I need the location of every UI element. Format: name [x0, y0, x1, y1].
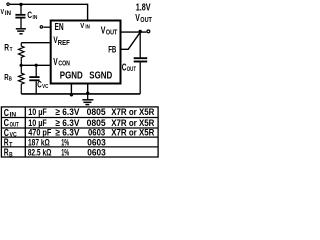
table: component values — [1, 107, 158, 157]
svg-text:SGND: SGND — [89, 71, 112, 82]
svg-text:OUT: OUT — [106, 28, 118, 37]
terminal VIN (open circle) — [7, 3, 9, 5]
table row CVC — [4, 127, 155, 139]
pin EN open circle — [40, 26, 42, 28]
svg-text:C: C — [122, 62, 127, 73]
svg-text:0603: 0603 — [87, 148, 106, 159]
pin label VOUT (inside) — [101, 26, 118, 37]
svg-text:B: B — [9, 77, 12, 83]
terminal VOUT (open circle) — [147, 30, 150, 33]
svg-text:OUT: OUT — [10, 122, 19, 129]
svg-text:R: R — [4, 43, 9, 53]
svg-text:PGND: PGND — [60, 71, 83, 82]
pin SGND stub — [87, 85, 89, 94]
svg-text:82.5 kΩ: 82.5 kΩ — [28, 148, 52, 159]
pin label VREF — [53, 34, 70, 47]
ground (CIN) — [16, 29, 26, 34]
ground (bus) — [82, 95, 93, 105]
node: input junction dot — [19, 3, 22, 6]
label RT — [4, 43, 13, 53]
svg-text:X7R or X5R: X7R or X5R — [111, 107, 154, 118]
svg-text:OUT: OUT — [140, 15, 152, 24]
wire: ground bus — [21, 93, 140, 95]
node A (feedback divider node) — [20, 64, 23, 67]
svg-text:V: V — [53, 57, 58, 68]
label RB — [4, 72, 12, 83]
pin label VIN (top) — [80, 21, 90, 31]
capacitor CIN — [15, 4, 25, 28]
svg-text:1%: 1% — [61, 148, 69, 159]
svg-text:V: V — [80, 21, 84, 30]
capacitor CVC — [29, 65, 39, 94]
resistor RB — [18, 65, 24, 94]
label COUT — [122, 62, 136, 73]
pin label VCON — [53, 57, 70, 68]
wire: VIN top rail to IC VIN pin — [10, 4, 88, 19]
node: PGND junction dot — [70, 93, 73, 96]
svg-text:≥ 6.3V: ≥ 6.3V — [55, 107, 80, 118]
svg-text:T: T — [10, 47, 13, 53]
svg-text:OUT: OUT — [127, 66, 136, 73]
svg-text:T: T — [9, 141, 13, 148]
table row rules — [1, 117, 158, 119]
svg-text:X7R or X5R: X7R or X5R — [111, 127, 154, 138]
table row RT — [4, 137, 106, 148]
svg-text:IN: IN — [85, 25, 90, 31]
table row CIN — [4, 107, 155, 119]
svg-text:VC: VC — [42, 84, 48, 90]
label CIN — [27, 10, 37, 21]
svg-text:B: B — [9, 151, 13, 158]
table outer border — [1, 107, 158, 157]
label VIN (input) — [1, 7, 12, 17]
svg-text:IN: IN — [10, 112, 17, 119]
svg-text:VC: VC — [10, 132, 18, 139]
node B (CVC tap) — [35, 64, 38, 67]
wire: VREF to RT top — [21, 42, 50, 44]
node: output junction dot — [139, 30, 142, 33]
svg-text:10 µF: 10 µF — [28, 107, 47, 118]
table column divider — [24, 107, 26, 157]
svg-text:1.8V: 1.8V — [136, 3, 151, 14]
label VOUT (output) — [135, 13, 152, 24]
svg-text:EN: EN — [55, 22, 64, 33]
wire EN — [43, 26, 50, 28]
label CVC — [37, 79, 48, 89]
table row COUT — [4, 118, 155, 129]
node: SGND junction dot — [86, 92, 89, 95]
wire: node A to VCON pin — [21, 64, 50, 66]
svg-text:0805: 0805 — [87, 107, 107, 118]
capacitor COUT — [134, 32, 148, 94]
pin PGND stub — [70, 85, 72, 94]
svg-text:CON: CON — [58, 61, 70, 68]
resistor RT — [18, 43, 24, 66]
svg-text:REF: REF — [58, 38, 70, 47]
wire: VOUT pin to output terminal — [122, 31, 147, 33]
svg-text:FB: FB — [108, 45, 116, 55]
svg-text:IN: IN — [33, 15, 38, 21]
wire FB with diagonal to output node — [122, 32, 141, 49]
svg-text:IN: IN — [5, 11, 11, 17]
op-amp/regulator U1 box — [51, 21, 121, 84]
table row RB — [4, 148, 106, 159]
